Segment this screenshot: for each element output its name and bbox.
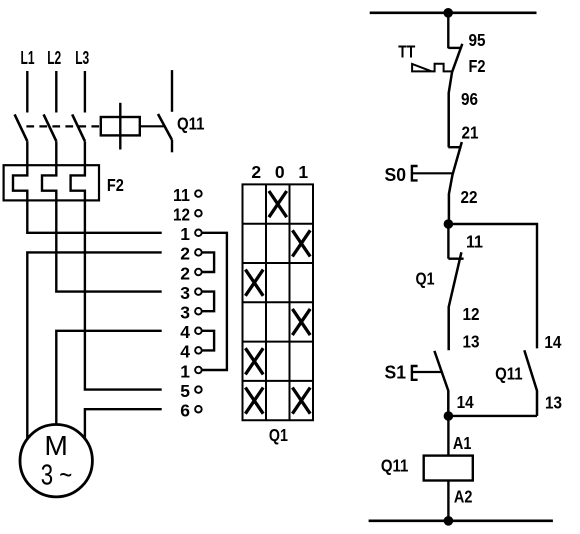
trip linkage [432,64,453,72]
jumper terminal 2 to 2 [202,252,214,272]
breaker Q1 pole 3 contact [72,114,85,141]
terminal 6 circle [195,406,202,413]
svg-text:22: 22 [461,187,478,207]
X mark row4 col1 [292,309,310,335]
X mark row2 col1 [292,230,310,256]
svg-text:Q11: Q11 [495,363,523,383]
svg-text:0: 0 [275,162,285,182]
jumper terminal 3 to 3 [202,292,214,312]
linkage box to Q11 contact [140,125,165,127]
junction node above coil [444,411,454,421]
top supply rail [370,12,537,15]
thermal trip flag [412,64,432,72]
svg-text:96: 96 [461,89,478,109]
S0 NC contact seat [448,146,461,148]
Q11 aux NO contact blade [524,350,537,416]
heater element pole 2 + wire to terminal 3 [42,141,162,291]
Q1 NO contact blade [449,252,462,350]
wire branch to Q11 aux [448,224,537,348]
svg-text:11: 11 [466,232,483,252]
svg-text:21: 21 [462,122,479,142]
terminal 4b circle [195,347,202,354]
terminal 3a circle [195,288,202,295]
svg-text:2: 2 [180,244,190,264]
F2 NC contact seat [448,47,461,49]
coil Q11 box [424,456,473,481]
X mark row3 col2 [245,270,263,296]
actuator box of switch [101,117,140,135]
contact table grid [242,184,315,420]
jumper terminal 4 to 4 [202,331,214,351]
terminal 3b circle [195,308,202,315]
svg-text:12: 12 [463,304,480,324]
terminal 5 circle [195,386,202,393]
wire motor W to terminal 6 [85,409,162,439]
svg-text:Q11: Q11 [381,456,409,476]
S1 pushbutton actuator [412,366,418,380]
wire Q11 contact lower lead [171,140,173,152]
svg-text:1: 1 [298,162,308,182]
X mark row5 col2 [245,348,263,374]
svg-text:5: 5 [180,381,190,401]
terminal 1b circle [195,367,202,374]
svg-text:4: 4 [180,342,190,362]
X mark row6 col2 [245,388,263,414]
svg-text:F2: F2 [107,175,124,195]
breaker Q1 pole 1 contact [15,114,28,141]
svg-text:F2: F2 [469,56,486,76]
wire junction to Q1 contact [447,224,449,259]
terminal 4a circle [195,328,202,335]
heater element pole 1 + wire to terminal 1 [13,141,162,233]
svg-text:13: 13 [545,393,562,413]
junction top rail [443,8,453,18]
wire coil A2 to bottom rail [447,481,449,521]
S1 NO contact blade [434,351,448,416]
Q1 NO contact seat [448,258,463,260]
terminal 12 circle [195,210,202,217]
svg-text:Q1: Q1 [416,268,435,288]
jumper terminal 1 to 1 [202,233,227,370]
actuator box center line [119,103,121,150]
wire Q11 aux to junction [448,415,537,417]
svg-text:A1: A1 [453,433,472,453]
motor M 3~ circle [20,425,92,497]
svg-text:4: 4 [180,322,190,342]
svg-text:14: 14 [544,332,561,352]
wire L3 lead [84,71,86,113]
wire motor V to terminal 4 [56,331,161,425]
terminal 1a circle [195,230,202,237]
heater element pole 3 + wire to terminal 5 [71,141,162,389]
junction bottom rail [444,516,454,526]
svg-text:TT: TT [398,41,415,61]
svg-text:3 ~: 3 ~ [41,460,73,492]
F2 NC contact blade [449,44,463,147]
svg-text:13: 13 [463,332,480,352]
svg-text:M: M [44,429,68,461]
S0 actuator linkage [413,172,454,174]
terminal 2a circle [195,249,202,256]
svg-text:1: 1 [180,224,190,244]
svg-text:L1: L1 [21,47,35,68]
wire junction to coil A1 [447,416,449,456]
svg-text:3: 3 [180,283,190,303]
svg-text:12: 12 [173,205,190,225]
S1 actuator linkage [413,371,442,373]
svg-text:14: 14 [457,392,474,412]
bottom supply rail [369,519,553,522]
junction node below S0 [444,219,454,229]
svg-text:95: 95 [469,30,486,50]
svg-text:2: 2 [180,263,190,283]
S0 NC contact blade [449,142,462,224]
svg-text:1: 1 [180,361,190,381]
svg-text:L2: L2 [47,47,61,68]
svg-text:L3: L3 [75,47,89,68]
wire L1 lead [26,71,28,113]
overload relay F2 box [4,165,99,200]
wire motor U to terminal 2 [27,252,161,439]
svg-text:S0: S0 [385,164,407,185]
svg-text:6: 6 [180,401,190,421]
svg-text:2: 2 [251,162,261,182]
S0 pushbutton actuator [412,166,418,180]
X mark row1 col0 [269,191,287,217]
X mark row6 col1 [292,388,310,414]
wire L2 lead [55,71,57,113]
terminal 11 circle [195,190,202,197]
svg-text:3: 3 [180,303,190,323]
svg-text:Q11: Q11 [177,114,205,134]
wire Q11 contact upper lead [171,70,173,112]
svg-text:Q1: Q1 [269,425,288,445]
wire rail to F2 contact [447,13,449,49]
contactor Q11 main contact blade [158,114,172,140]
mechanical linkage (dashed) [26,125,100,127]
breaker Q1 pole 2 contact [44,114,57,141]
terminal 2b circle [195,269,202,276]
svg-text:11: 11 [173,185,190,205]
svg-text:A2: A2 [454,487,473,507]
svg-text:S1: S1 [385,362,407,383]
